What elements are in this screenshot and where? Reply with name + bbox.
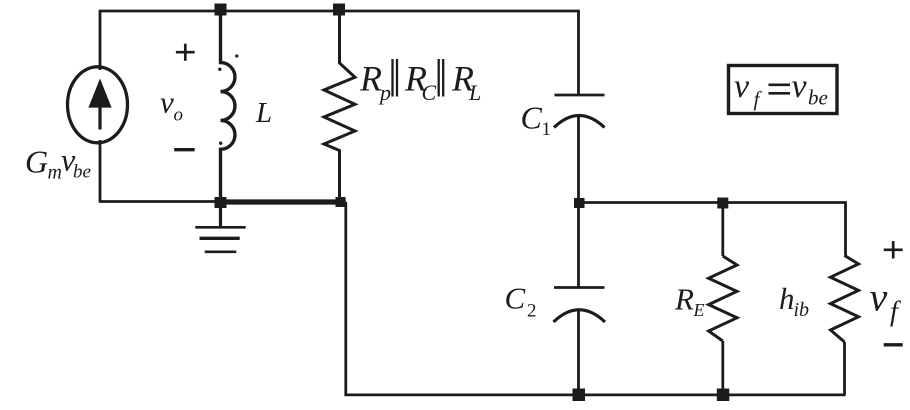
node R top	[333, 4, 345, 16]
inductor L	[221, 11, 235, 202]
wire C2 bottom lead	[577, 309, 580, 394]
svg-text:v: v	[734, 68, 750, 105]
label equals in box	[769, 85, 791, 94]
capacitor C1	[554, 95, 605, 128]
inductor artifact dot bottom	[219, 142, 222, 145]
resistor Rp||RC||RL	[324, 11, 355, 199]
inductor artifact dot mid	[218, 68, 221, 71]
svg-text:L: L	[255, 97, 272, 129]
label plus of vf	[884, 241, 903, 258]
svg-text:o: o	[174, 104, 184, 125]
label minus of vf	[884, 343, 903, 346]
wire top rail	[100, 11, 579, 95]
label parallel bars 1	[393, 59, 398, 97]
svg-text:E: E	[693, 300, 705, 320]
svg-text:G: G	[25, 144, 48, 180]
svg-text:be: be	[808, 86, 828, 110]
svg-text:C: C	[422, 80, 437, 105]
annotation box vf = vbe	[729, 66, 838, 114]
node RE bottom	[717, 389, 730, 402]
wire ground rail thin	[99, 200, 216, 203]
svg-text:f: f	[890, 297, 901, 328]
current source G_m v_be	[68, 67, 128, 143]
svg-text:p: p	[378, 80, 391, 105]
node C1-C2 junction	[574, 198, 585, 208]
node L top	[215, 4, 227, 16]
svg-text:v: v	[792, 68, 808, 105]
wire left drop to bottom rail	[344, 202, 347, 395]
svg-text:be: be	[73, 162, 91, 183]
svg-text:f: f	[754, 87, 763, 111]
svg-text:ib: ib	[794, 299, 810, 321]
svg-text:R: R	[359, 58, 382, 98]
wire source bottom lead	[99, 140, 102, 202]
node corner at thick wire end	[336, 197, 346, 207]
svg-text:L: L	[468, 80, 481, 105]
svg-text:2: 2	[527, 301, 537, 322]
svg-text:C: C	[505, 281, 526, 316]
capacitor C2	[554, 288, 606, 323]
inductor artifact dot top	[235, 54, 238, 57]
wire bottom rail	[344, 393, 845, 396]
svg-text:v: v	[160, 84, 174, 119]
node ground junction	[215, 197, 227, 208]
wire ground rail thick	[215, 199, 346, 204]
svg-text:h: h	[779, 281, 795, 316]
wire middle net horizontal	[579, 203, 846, 256]
resistor hib	[831, 256, 859, 343]
svg-text:v: v	[870, 275, 888, 320]
wire hib bottom lead	[843, 342, 846, 395]
svg-text:C: C	[521, 100, 543, 136]
svg-text:R: R	[674, 282, 694, 317]
wire RE leads	[721, 203, 724, 256]
svg-text:1: 1	[542, 119, 552, 140]
ground	[195, 205, 245, 252]
label minus of vo	[174, 148, 195, 151]
label plus of vo	[176, 44, 195, 61]
wire middle rail	[577, 116, 580, 287]
node RE top	[717, 198, 728, 209]
resistor RE	[709, 256, 737, 341]
node C2 bottom	[573, 389, 586, 402]
label parallel bars 2	[439, 59, 444, 97]
svg-text:m: m	[48, 162, 62, 184]
